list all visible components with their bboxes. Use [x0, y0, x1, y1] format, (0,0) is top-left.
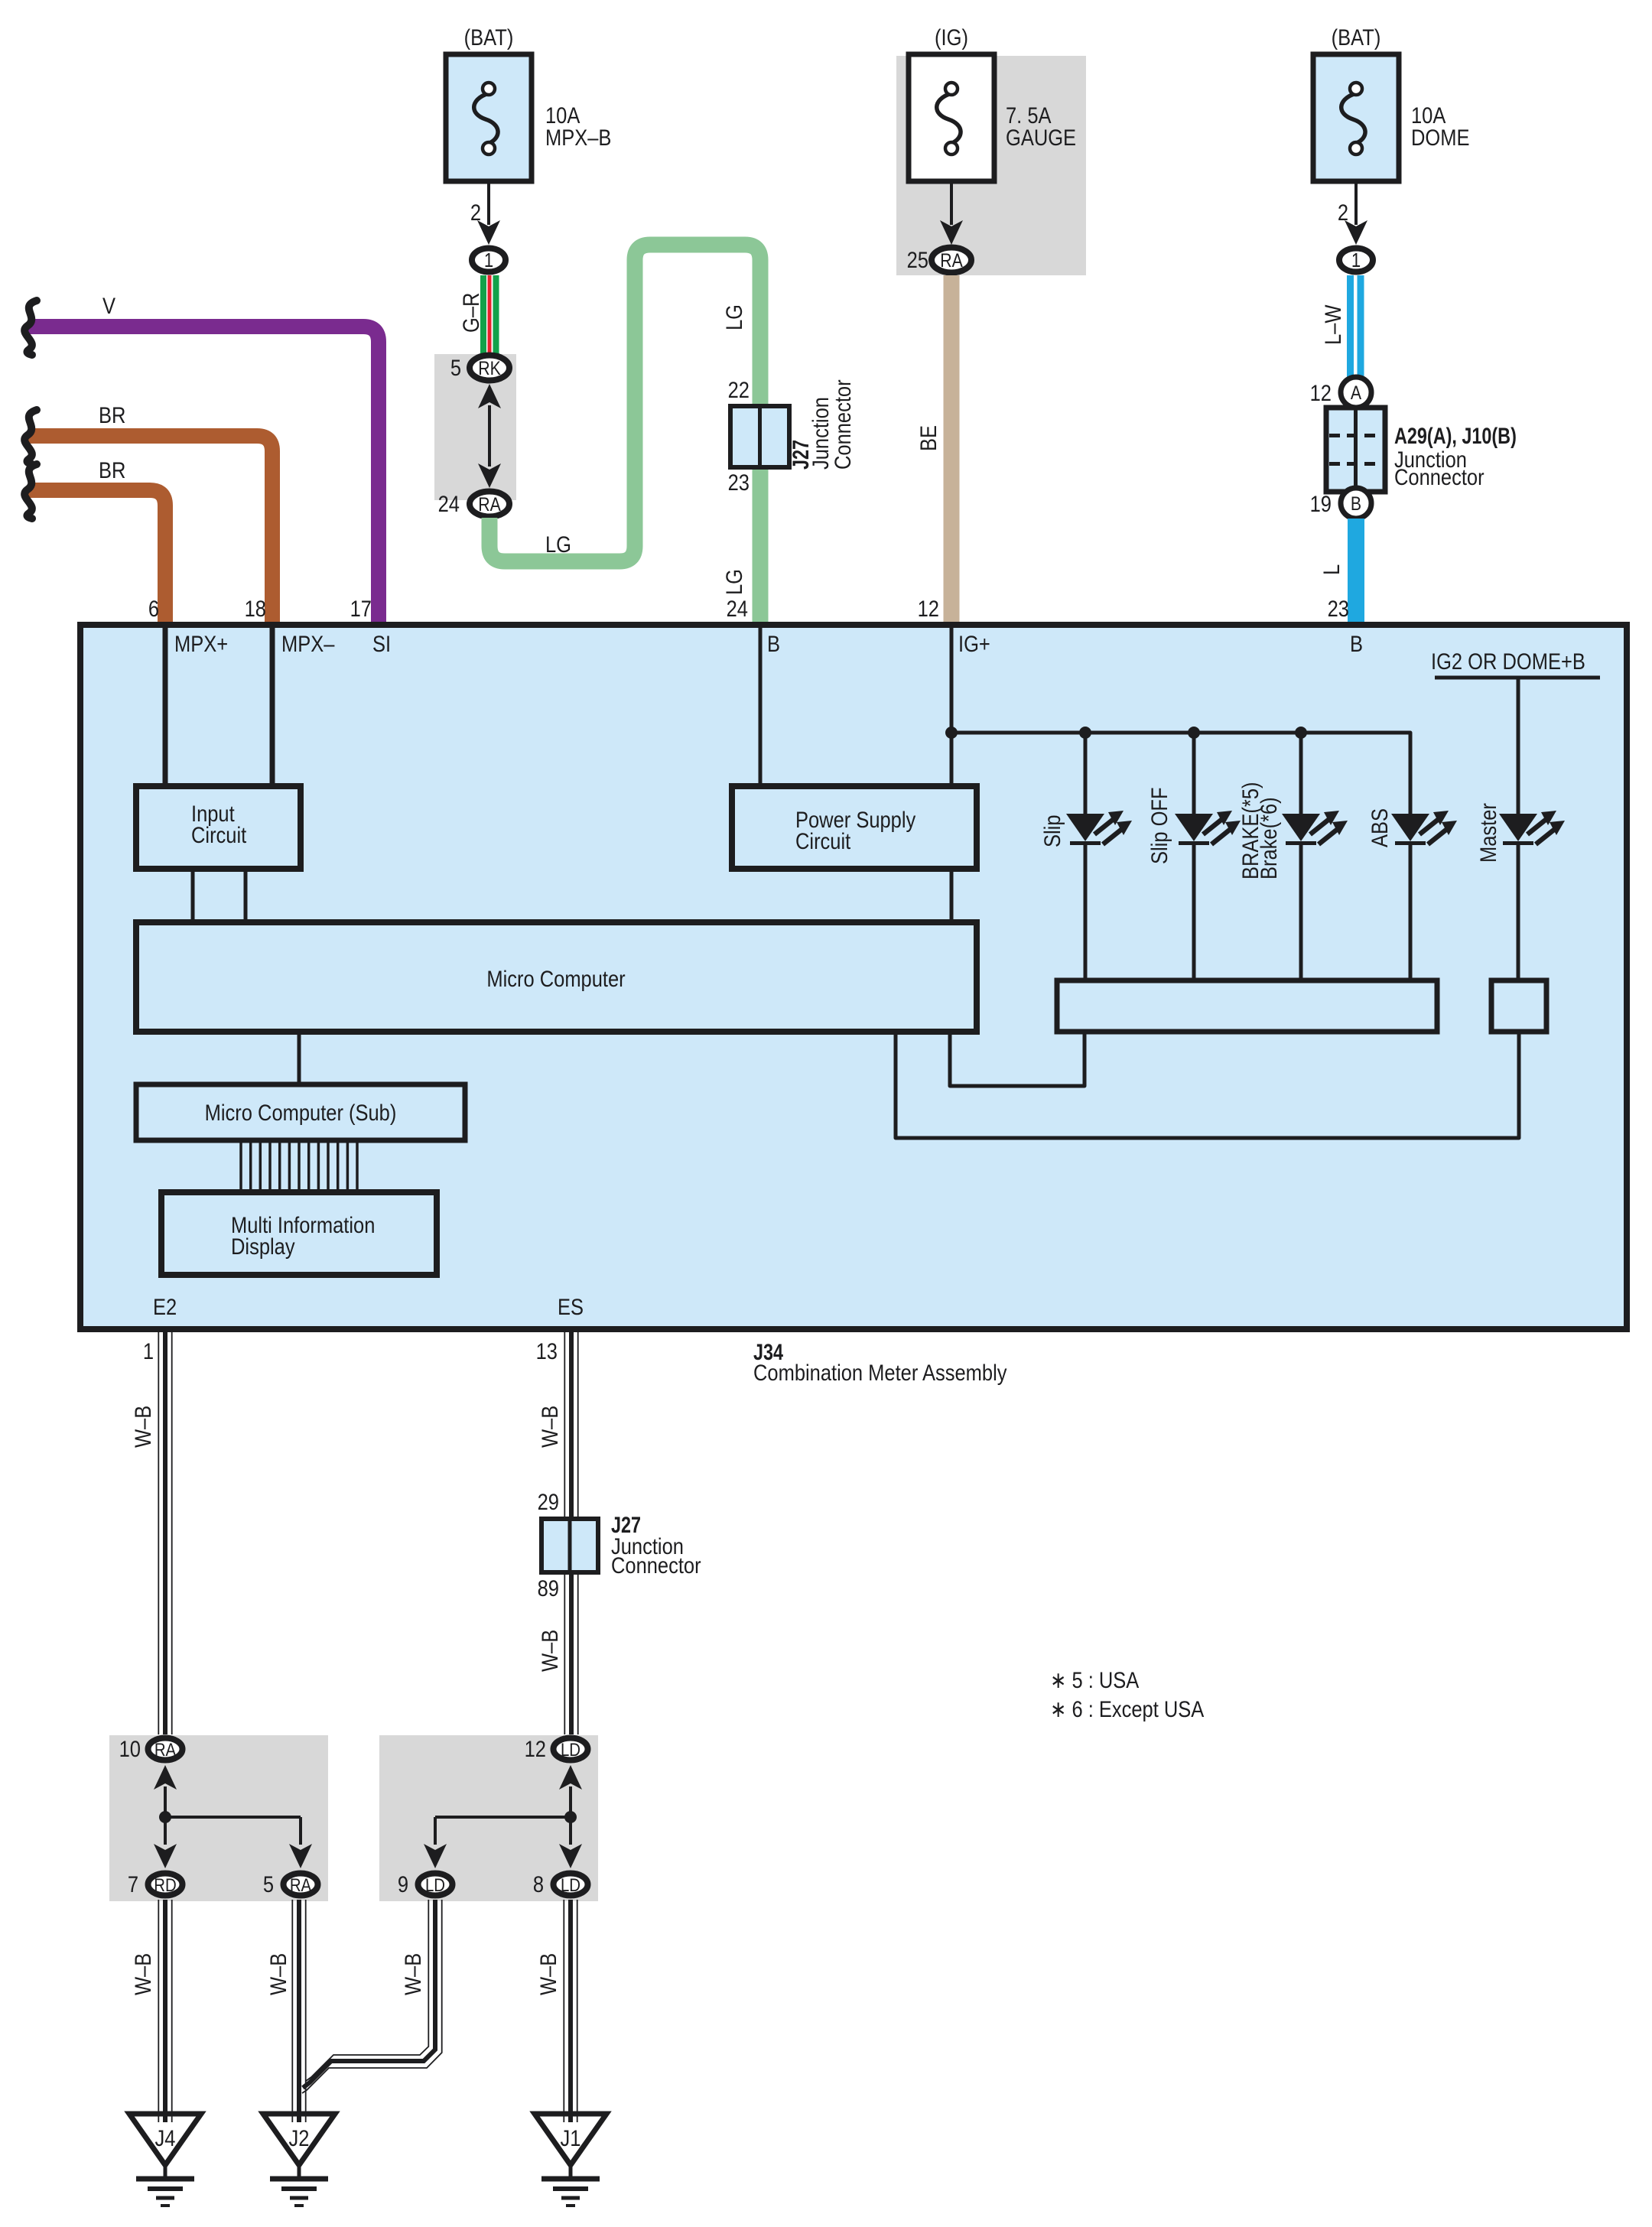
svg-text:J4: J4 — [155, 2125, 176, 2151]
label J34 — [753, 1339, 1007, 1385]
ground J4 — [129, 2114, 201, 2206]
svg-text:9: 9 — [398, 1871, 408, 1897]
svg-text:Connector: Connector — [611, 1552, 701, 1578]
svg-text:6: 6 — [148, 596, 159, 621]
terminal 19 B — [1310, 488, 1371, 519]
svg-text:(IG): (IG) — [935, 24, 968, 50]
wire W-B from E2 — [130, 1329, 172, 1734]
svg-text:24: 24 — [438, 491, 460, 516]
svg-text:LG: LG — [721, 304, 746, 330]
svg-text:V: V — [102, 293, 115, 318]
micro computer box — [136, 922, 977, 1032]
master LED driver box — [1491, 980, 1546, 1032]
svg-text:RA: RA — [154, 1739, 176, 1760]
wire W-B to ground J4 — [130, 1900, 172, 2122]
connector terminal 5 RK — [450, 355, 509, 380]
wire micro computer to sub — [298, 1032, 301, 1086]
svg-text:1: 1 — [143, 1338, 154, 1364]
notes — [1050, 1667, 1205, 1721]
ground J1 — [535, 2114, 606, 2206]
ground J2 — [263, 2114, 335, 2206]
svg-text:A: A — [1351, 382, 1362, 403]
svg-text:W–B: W–B — [537, 1406, 562, 1448]
splice arrows left — [154, 1765, 312, 1868]
svg-text:BR: BR — [99, 457, 125, 483]
svg-text:A29(A), J10(B): A29(A), J10(B) — [1394, 423, 1517, 448]
input circuit box — [136, 786, 301, 869]
wire W-B to ground J2 — [265, 1900, 306, 2122]
junction connector A29(A), J10(B) — [1326, 408, 1517, 492]
svg-text:W–B: W–B — [535, 1953, 561, 1995]
svg-text:23: 23 — [728, 470, 750, 495]
svg-text:Slip: Slip — [1039, 814, 1065, 847]
svg-text:12: 12 — [1310, 380, 1332, 405]
svg-text:LD: LD — [425, 1874, 445, 1895]
wire L-W — [1320, 275, 1361, 378]
wire L — [1319, 519, 1356, 625]
svg-text:L: L — [1319, 564, 1344, 575]
terminal 10 RA — [119, 1736, 183, 1761]
svg-text:12: 12 — [525, 1736, 546, 1761]
wire G-R — [458, 275, 496, 354]
wire LG (shielded to J27) — [489, 245, 760, 625]
connector terminal 25 RA — [907, 247, 971, 272]
fuse F3 10A DOME — [1313, 24, 1469, 181]
terminal 7 RD — [128, 1871, 183, 1897]
svg-text:MPX–: MPX– — [281, 631, 335, 656]
svg-text:LD: LD — [561, 1874, 580, 1895]
connector terminal 1 (DOME) — [1339, 249, 1373, 272]
svg-text:W–B: W–B — [265, 1953, 291, 1995]
svg-text:8: 8 — [533, 1871, 544, 1897]
svg-text:ABS: ABS — [1367, 808, 1392, 847]
svg-text:Circuit: Circuit — [795, 828, 850, 853]
wire fuse F3 pin 2 — [1338, 181, 1367, 245]
svg-text:RA: RA — [478, 493, 501, 515]
svg-text:Master: Master — [1475, 803, 1501, 863]
wire W-B from ES — [536, 1329, 578, 1519]
svg-text:1: 1 — [484, 249, 493, 271]
wire IG+ internal — [945, 625, 958, 788]
shield box (RK/RA) — [434, 354, 516, 500]
svg-text:G–R: G–R — [458, 293, 483, 333]
svg-text:Micro Computer: Micro Computer — [486, 966, 625, 991]
svg-text:∗ 6 : Except USA: ∗ 6 : Except USA — [1050, 1696, 1205, 1721]
wire micro computer to master driver — [896, 1032, 1519, 1138]
micro computer (sub) box — [136, 1084, 465, 1140]
svg-text:Brake(*6): Brake(*6) — [1256, 797, 1281, 879]
svg-text:MPX+: MPX+ — [174, 631, 228, 656]
wire power supply to micro computer — [950, 869, 954, 924]
svg-text:L–W: L–W — [1320, 304, 1345, 345]
LED indicator at x=1419 — [1039, 733, 1132, 980]
svg-text:17: 17 — [350, 596, 372, 621]
gray panel (GAUGE fuse) — [896, 56, 1086, 275]
svg-text:22: 22 — [728, 377, 750, 402]
svg-text:2: 2 — [1338, 200, 1348, 225]
LED indicator at x=1701 — [1237, 733, 1348, 980]
svg-text:GAUGE: GAUGE — [1006, 125, 1076, 150]
svg-text:ES: ES — [558, 1294, 584, 1319]
svg-text:MPX–B: MPX–B — [545, 125, 611, 150]
wire BE — [915, 275, 951, 625]
IG2 OR DOME+B feed — [1431, 649, 1600, 814]
connector terminal 1 (MPX-B) — [472, 249, 506, 272]
svg-text:E2: E2 — [153, 1294, 177, 1319]
svg-text:10: 10 — [119, 1736, 141, 1761]
connector terminal 24 RA — [438, 491, 509, 516]
wire V — [24, 293, 379, 625]
pin labels bottom — [153, 1294, 584, 1319]
fuse F1 10A MPX-B — [446, 24, 611, 181]
svg-text:B: B — [1351, 493, 1361, 514]
svg-text:RK: RK — [478, 357, 501, 379]
svg-text:LG: LG — [721, 569, 746, 595]
wire B internal — [759, 625, 763, 788]
svg-text:Circuit: Circuit — [191, 822, 246, 847]
svg-text:5: 5 — [450, 355, 461, 380]
wire W-B to ground J1 — [535, 1900, 577, 2122]
svg-text:24: 24 — [727, 596, 748, 621]
svg-text:W–B: W–B — [400, 1953, 425, 1995]
wire W-B J27 to LD — [537, 1572, 578, 1734]
svg-text:B: B — [1350, 631, 1363, 656]
wire micro computer to LED bar — [950, 1032, 1085, 1086]
terminal 12 A — [1310, 377, 1371, 408]
terminal 5 RA — [263, 1871, 318, 1897]
svg-text:∗ 5 : USA: ∗ 5 : USA — [1050, 1667, 1140, 1692]
svg-text:SI: SI — [372, 631, 391, 656]
terminal 12 LD — [525, 1736, 588, 1761]
terminal 9 LD — [398, 1871, 453, 1897]
junction connector J27 (top) — [727, 377, 856, 621]
svg-text:13: 13 — [536, 1338, 558, 1364]
svg-text:LD: LD — [561, 1739, 580, 1760]
svg-text:23: 23 — [1328, 596, 1349, 621]
svg-text:12: 12 — [918, 596, 939, 621]
shield box (ground splice right) — [379, 1735, 598, 1901]
wire W-B from 9 LD with jog — [302, 1900, 442, 2093]
fuse F2 7.5A GAUGE — [909, 24, 1076, 181]
svg-text:18: 18 — [245, 596, 266, 621]
svg-text:DOME: DOME — [1411, 125, 1469, 150]
wire BR (MPX+) — [24, 457, 165, 625]
LED indicator at x=1985 — [1475, 678, 1565, 980]
terminal 8 LD — [533, 1871, 588, 1897]
svg-text:Connector: Connector — [830, 379, 855, 470]
wire MPX+ internal — [163, 625, 168, 788]
LED driver bar box — [1057, 980, 1437, 1032]
svg-text:IG+: IG+ — [958, 631, 990, 656]
LED indicator at x=1561 — [1146, 733, 1241, 980]
shield box (ground splice left) — [109, 1735, 328, 1901]
junction connector J27 (bottom) — [538, 1489, 701, 1601]
svg-text:(BAT): (BAT) — [1332, 24, 1381, 50]
pin labels top — [174, 631, 1363, 656]
wire MPX- internal — [270, 625, 275, 788]
svg-text:BE: BE — [915, 425, 941, 451]
LED indicator at x=1844 — [1367, 733, 1457, 980]
svg-text:25: 25 — [907, 247, 928, 272]
svg-text:J2: J2 — [289, 2125, 310, 2151]
svg-text:BR: BR — [99, 402, 125, 428]
multi information display box — [161, 1192, 437, 1275]
svg-text:5: 5 — [263, 1871, 274, 1897]
svg-text:W–B: W–B — [130, 1953, 155, 1995]
wire BR (MPX-) — [24, 402, 272, 625]
power supply circuit box — [732, 786, 977, 869]
ribbon cable — [241, 1140, 357, 1192]
svg-text:Connector: Connector — [1394, 464, 1485, 489]
svg-text:W–B: W–B — [537, 1630, 562, 1672]
svg-text:J1: J1 — [561, 2125, 581, 2151]
svg-text:29: 29 — [538, 1489, 559, 1514]
svg-text:(BAT): (BAT) — [464, 24, 514, 50]
svg-text:Micro Computer (Sub): Micro Computer (Sub) — [205, 1100, 397, 1125]
wire fuse F1 pin 2 — [470, 181, 500, 245]
svg-text:7: 7 — [128, 1871, 138, 1897]
svg-text:IG2 OR DOME+B: IG2 OR DOME+B — [1431, 649, 1585, 674]
LED bus wire — [951, 727, 1410, 814]
svg-text:LG: LG — [545, 532, 571, 557]
wire fuse F2 to terminal — [940, 181, 963, 245]
svg-text:RA: RA — [290, 1874, 311, 1895]
svg-text:Display: Display — [231, 1234, 295, 1259]
svg-text:RA: RA — [940, 249, 963, 271]
svg-text:RD: RD — [154, 1874, 176, 1895]
svg-text:Slip OFF: Slip OFF — [1146, 787, 1172, 864]
wires input circuit to micro computer — [191, 869, 195, 924]
svg-text:B: B — [767, 631, 780, 656]
twisted pair arrows — [478, 384, 501, 488]
svg-text:Combination Meter Assembly: Combination Meter Assembly — [753, 1360, 1007, 1385]
svg-text:89: 89 — [538, 1575, 559, 1601]
svg-text:1: 1 — [1351, 249, 1361, 271]
svg-text:2: 2 — [470, 200, 481, 225]
svg-text:19: 19 — [1310, 491, 1332, 516]
splice arrows right — [424, 1765, 582, 1868]
combination meter assembly box J34 — [80, 625, 1627, 1329]
svg-text:W–B: W–B — [130, 1406, 155, 1448]
